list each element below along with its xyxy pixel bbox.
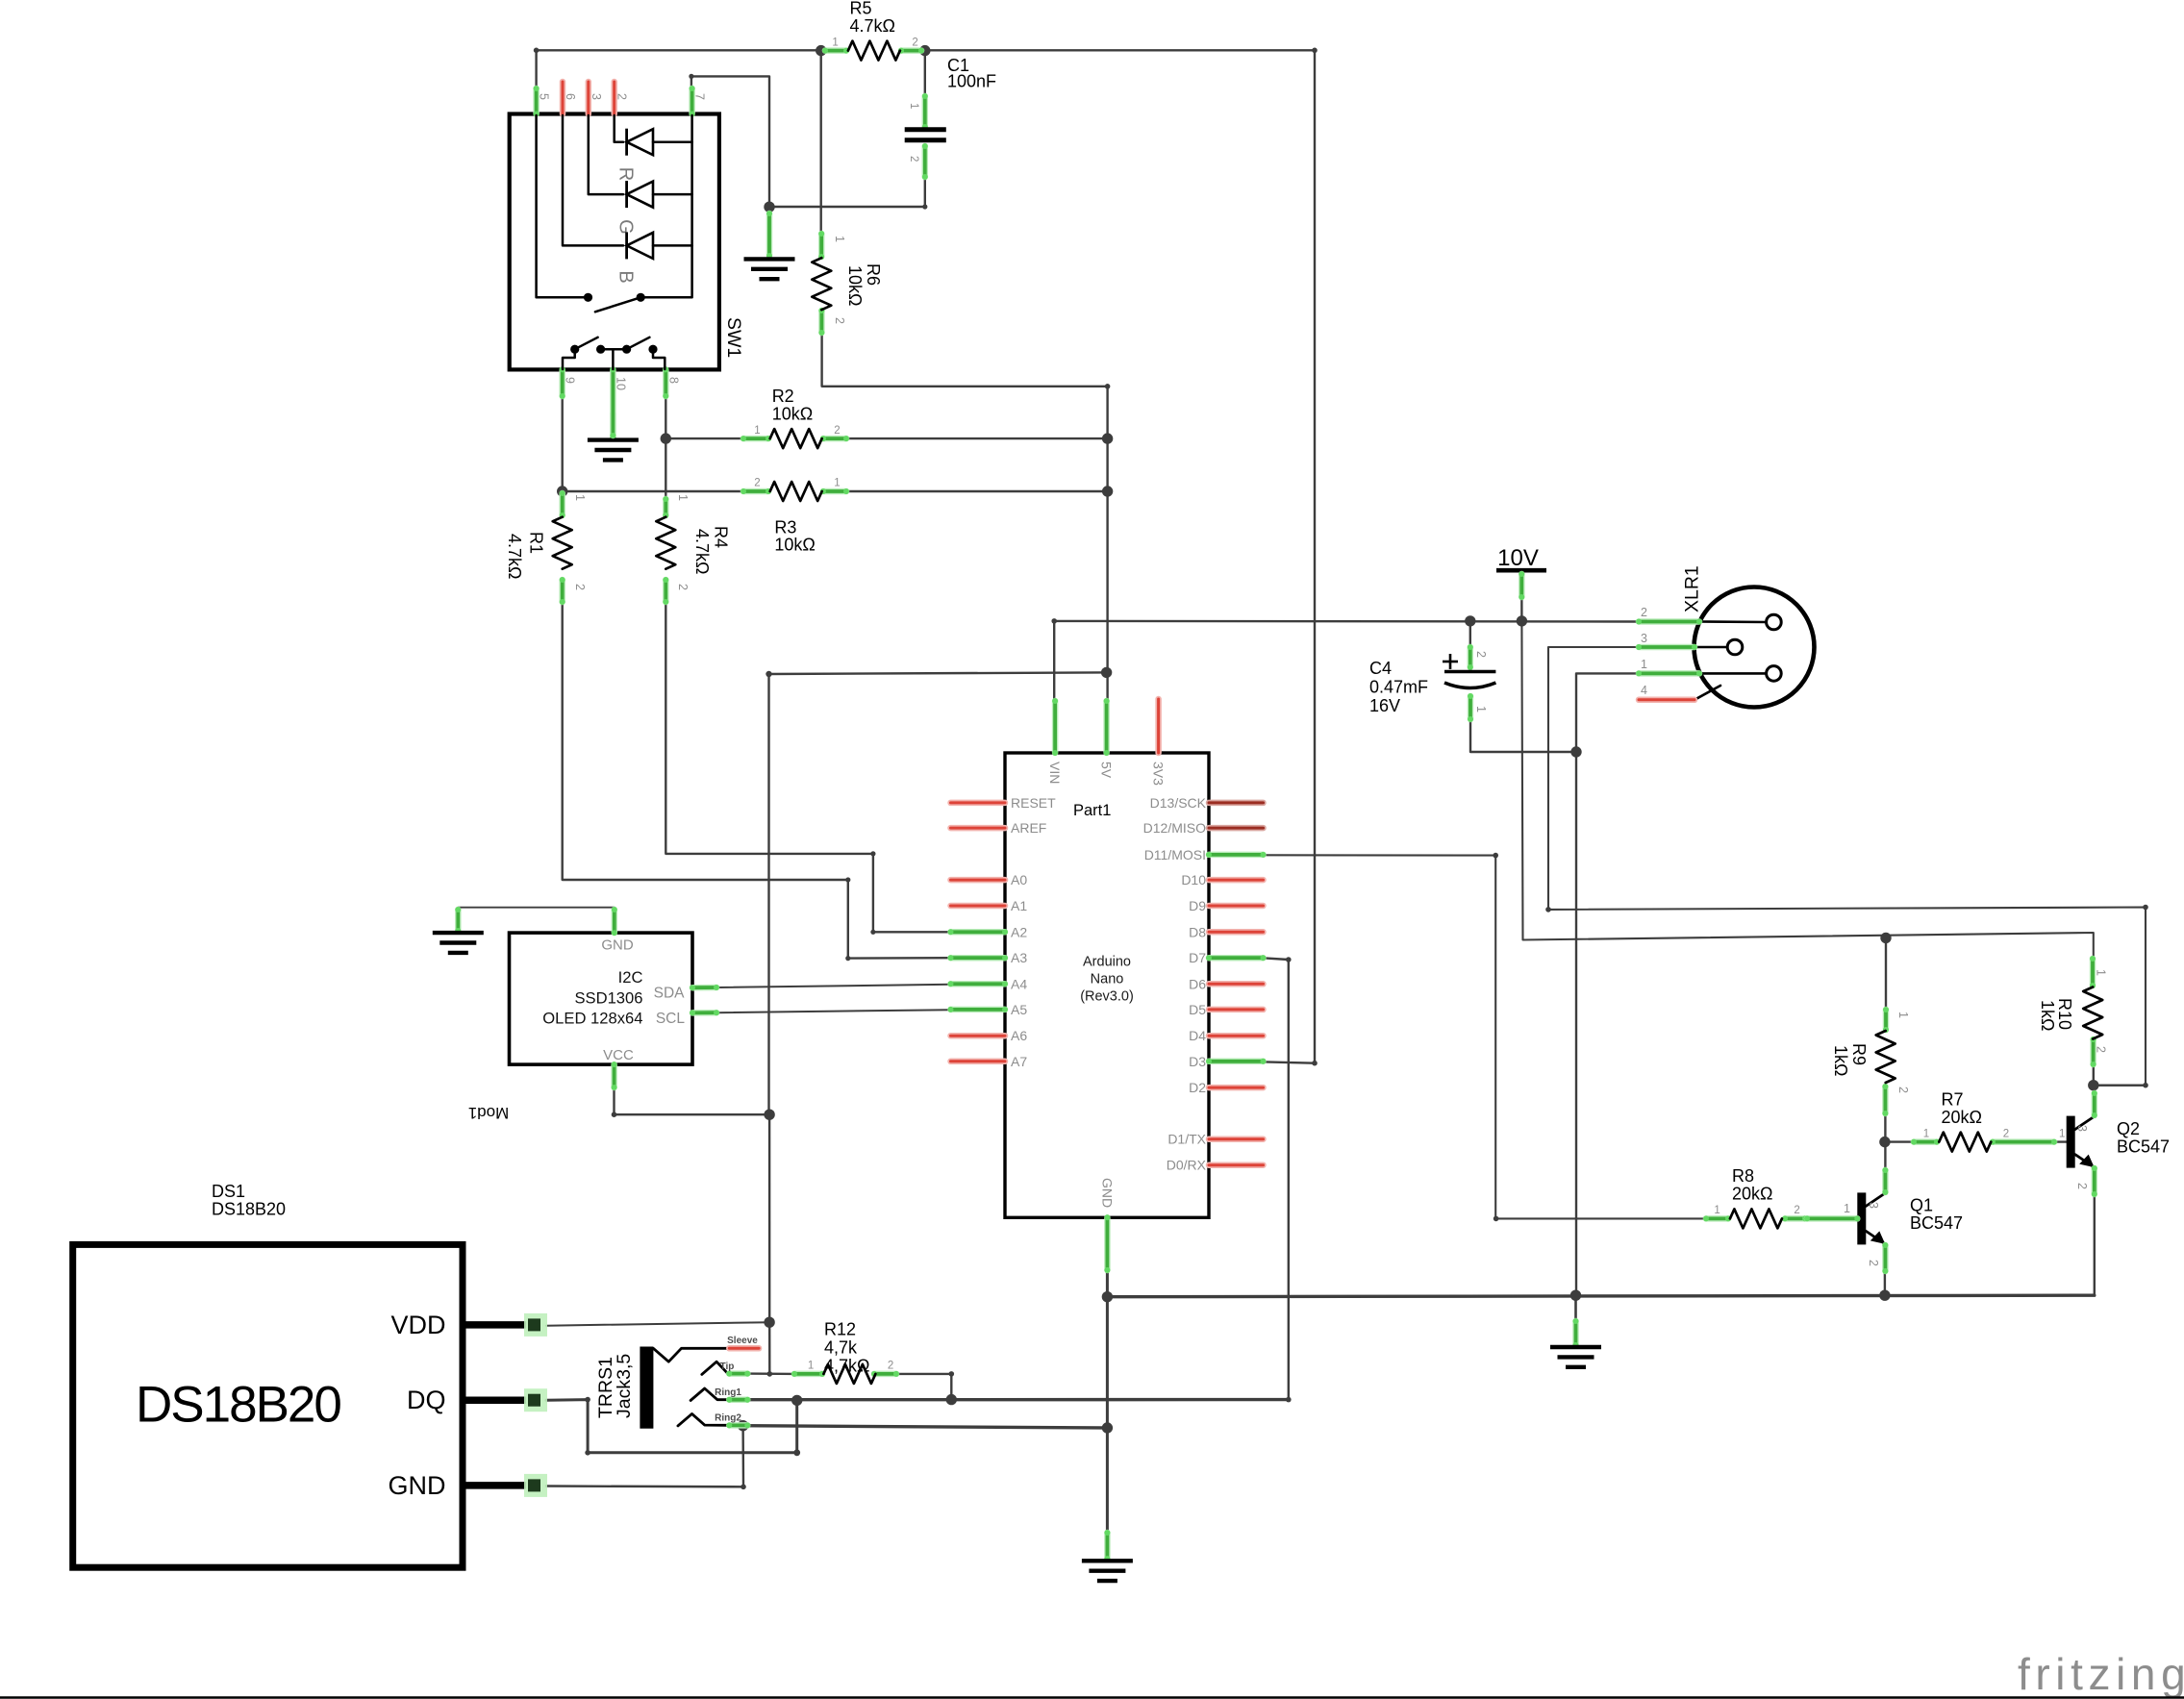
wire C4 pin1 to XLR pin1 vertical bbox=[1470, 719, 1576, 752]
svg-text:DQ: DQ bbox=[407, 1386, 446, 1414]
wire OLED VCC to +5V vertical bbox=[615, 1087, 770, 1114]
LED diode G in SW1 bbox=[625, 181, 628, 208]
svg-text:2: 2 bbox=[833, 317, 846, 324]
svg-text:1: 1 bbox=[2095, 969, 2108, 976]
XLR pin 2 bbox=[1699, 620, 1766, 623]
wire OLED SCL to Arduino A5 bbox=[717, 1010, 951, 1012]
junction C4 minus / XLR1 pin1 node bbox=[1570, 746, 1581, 757]
svg-text:Part1: Part1 bbox=[1073, 802, 1111, 819]
Arduino pin D6 bbox=[1209, 981, 1264, 987]
TRRS jack TRRS1 bbox=[595, 1336, 759, 1429]
svg-text:Tip: Tip bbox=[720, 1362, 735, 1372]
svg-text:Ring2: Ring2 bbox=[715, 1413, 741, 1424]
svg-text:5: 5 bbox=[538, 93, 551, 100]
svg-text:A5: A5 bbox=[1011, 1002, 1027, 1017]
TRRS Ring1 contact bbox=[690, 1388, 728, 1401]
Arduino pin D12/MISO bbox=[1209, 825, 1264, 832]
wire R9 junction to R7 pin1 bbox=[1885, 1140, 1912, 1142]
supply 10V bbox=[1496, 545, 1546, 600]
svg-text:10V: 10V bbox=[1497, 545, 1539, 571]
junction C1 ground node bbox=[764, 202, 774, 212]
junction Ring2 / GND vertical node bbox=[1102, 1422, 1113, 1433]
ground (SW1 pin10) bbox=[610, 411, 615, 440]
wire Ring2 net to Arduino GND vertical bbox=[743, 1426, 1108, 1428]
svg-text:A0: A0 bbox=[1011, 872, 1027, 887]
svg-text:2: 2 bbox=[912, 37, 917, 48]
wire DS18B20 DQ to Ring1 net (detour) bbox=[546, 1400, 797, 1453]
svg-text:DS18B20: DS18B20 bbox=[212, 1199, 286, 1218]
wire C1 pin2 to ground junction bbox=[769, 169, 925, 207]
svg-text:2: 2 bbox=[615, 93, 629, 100]
svg-text:SSD1306: SSD1306 bbox=[574, 989, 642, 1008]
junction 5V pin node bbox=[1101, 667, 1112, 678]
wire 10V supply stub bbox=[1520, 572, 1522, 621]
svg-text:20kΩ: 20kΩ bbox=[1942, 1108, 1982, 1127]
svg-text:1: 1 bbox=[1714, 1205, 1720, 1216]
Arduino pin RESET bbox=[951, 800, 1006, 807]
Arduino pin D9 bbox=[1209, 903, 1264, 910]
svg-text:D13/SCK: D13/SCK bbox=[1150, 795, 1207, 811]
svg-text:2: 2 bbox=[888, 1361, 893, 1372]
corner dot R12 bend bbox=[949, 1371, 955, 1377]
svg-text:GND: GND bbox=[1099, 1178, 1115, 1208]
DS18B20 pin DQ bbox=[463, 1396, 526, 1404]
svg-text:D10: D10 bbox=[1181, 872, 1206, 887]
resistor R2 10k (horizontal) bbox=[741, 387, 849, 448]
svg-text:AREF: AREF bbox=[1011, 820, 1046, 836]
svg-text:R3: R3 bbox=[774, 517, 796, 537]
corner dot A2 bend2 bbox=[870, 930, 875, 935]
OLED module Mod1 SSD1306 bbox=[468, 907, 719, 1122]
DS18B20 sensor DS1 bbox=[73, 1182, 547, 1567]
wire Arduino VIN to 10V net bbox=[1054, 621, 1637, 701]
svg-text:3: 3 bbox=[2075, 1125, 2089, 1132]
wire R4 pin2 to Arduino A2 bbox=[665, 604, 950, 932]
wire R7 pin2 to Q2 base bbox=[2056, 1140, 2069, 1142]
svg-text:2: 2 bbox=[1794, 1205, 1799, 1216]
transistor Q2 BC547 bbox=[2067, 1090, 2170, 1197]
wire ground rail to Q2 emitter bbox=[1107, 1295, 2094, 1297]
junction Ring2 pin node bbox=[738, 1420, 748, 1431]
svg-text:A4: A4 bbox=[1011, 976, 1027, 991]
SW1 pin 6 bbox=[560, 82, 566, 114]
svg-text:R8: R8 bbox=[1732, 1166, 1754, 1186]
wire Q2 collector stub to junction bbox=[2093, 1086, 2096, 1092]
svg-text:BC547: BC547 bbox=[1910, 1213, 1963, 1233]
svg-text:A1: A1 bbox=[1011, 898, 1027, 913]
Arduino pin D7 bbox=[1206, 955, 1267, 961]
svg-text:SCL: SCL bbox=[656, 1011, 686, 1027]
svg-text:R10: R10 bbox=[2055, 998, 2074, 1030]
SW1 pin 2 bbox=[611, 82, 617, 114]
svg-text:BC547: BC547 bbox=[2117, 1137, 2170, 1157]
svg-text:2: 2 bbox=[2075, 1183, 2089, 1189]
svg-text:A7: A7 bbox=[1011, 1054, 1027, 1069]
transistor Q1 BC547 bbox=[1804, 1167, 1963, 1274]
svg-text:2: 2 bbox=[2095, 1046, 2108, 1053]
Arduino pin AREF bbox=[951, 825, 1006, 832]
Arduino pin D2 bbox=[1209, 1085, 1264, 1091]
LED diode R in SW1 bbox=[625, 129, 628, 156]
SW1 pin 3 bbox=[586, 82, 592, 114]
wire R9 pin1 stub bbox=[1885, 938, 1887, 1012]
svg-text:R9: R9 bbox=[1849, 1043, 1869, 1065]
svg-text:C4: C4 bbox=[1369, 659, 1392, 678]
junction R5 pin1 node bbox=[816, 45, 826, 56]
svg-text:2: 2 bbox=[2003, 1128, 2009, 1139]
corner dot D7 bend bbox=[1286, 957, 1292, 962]
ground (Arduino GND, bottom) bbox=[1104, 1530, 1110, 1562]
svg-text:Mod1: Mod1 bbox=[468, 1104, 510, 1122]
svg-text:D3: D3 bbox=[1189, 1054, 1206, 1069]
wire DS18B20 VDD to +5V junction bbox=[546, 1322, 769, 1326]
svg-text:XLR1: XLR1 bbox=[1682, 565, 1703, 612]
TRRS Tip contact bbox=[702, 1362, 728, 1374]
svg-text:7: 7 bbox=[693, 93, 707, 100]
capacitor C1 100nF bbox=[905, 55, 996, 180]
Arduino pin VIN bbox=[1052, 698, 1058, 756]
resistor R8 20k (horizontal) bbox=[1703, 1166, 1808, 1228]
svg-text:1: 1 bbox=[833, 236, 846, 242]
corner dot DS GND bend bbox=[741, 1485, 746, 1490]
svg-text:D9: D9 bbox=[1189, 898, 1206, 913]
svg-text:1: 1 bbox=[832, 37, 838, 48]
Arduino pin A2 bbox=[948, 929, 1009, 935]
svg-text:D0/RX: D0/RX bbox=[1167, 1158, 1207, 1173]
Arduino pin 3V3 bbox=[1155, 699, 1162, 753]
svg-text:D2: D2 bbox=[1189, 1080, 1206, 1095]
wire XLR pin3 to Q2 collector (right edge loop) bbox=[1548, 647, 2146, 1086]
wire SW1 pin5 to R5 pin1 (top rail) bbox=[537, 50, 821, 91]
capacitor C4 0.47mF 16V (polarized) bbox=[1369, 644, 1495, 722]
SW1 pin 10 bbox=[610, 366, 615, 438]
svg-text:5V: 5V bbox=[1099, 762, 1115, 779]
svg-text:D11/MOSI: D11/MOSI bbox=[1144, 847, 1206, 862]
corner dot A3 bend2 bbox=[845, 956, 850, 961]
svg-text:SW1: SW1 bbox=[723, 317, 744, 358]
svg-text:100nF: 100nF bbox=[947, 72, 996, 91]
svg-text:9: 9 bbox=[564, 377, 577, 384]
svg-text:10kΩ: 10kΩ bbox=[772, 405, 813, 424]
junction R9 / R7 / Q1 collector bbox=[1879, 1137, 1890, 1147]
wire 5V pin to +5V net corner bbox=[769, 672, 1107, 1114]
junction R2 / 5V rail bbox=[1102, 433, 1113, 443]
svg-text:1: 1 bbox=[2059, 1128, 2065, 1139]
Arduino pin A1 bbox=[951, 903, 1006, 910]
wire OLED SDA to Arduino A4 bbox=[717, 985, 951, 987]
svg-text:Arduino: Arduino bbox=[1083, 955, 1131, 970]
svg-text:2: 2 bbox=[1641, 606, 1647, 619]
junction 10V wire / R9 pin1 bbox=[1880, 933, 1891, 943]
SW1 pin 8 bbox=[663, 366, 668, 399]
junction Arduino GND node bbox=[1102, 1291, 1113, 1302]
svg-text:3: 3 bbox=[1641, 632, 1647, 645]
svg-text:D7: D7 bbox=[1189, 950, 1206, 965]
wire Arduino GND down to bottom ground bbox=[1106, 1272, 1109, 1531]
svg-text:4.7kΩ: 4.7kΩ bbox=[692, 529, 712, 574]
wire C4 pin2 stub bbox=[1469, 621, 1471, 647]
svg-text:2: 2 bbox=[676, 584, 690, 590]
svg-text:RESET: RESET bbox=[1011, 795, 1056, 811]
svg-text:10: 10 bbox=[614, 377, 627, 390]
wire R1 pin2 to Arduino A3 bbox=[563, 604, 951, 959]
OLED pin SCL bbox=[690, 1010, 719, 1015]
resistor R3 10k (horizontal) bbox=[741, 478, 849, 555]
SW1 pin 7 bbox=[690, 86, 695, 117]
svg-text:4.7kΩ: 4.7kΩ bbox=[505, 534, 524, 579]
SW1 internal wiring bbox=[537, 115, 584, 297]
svg-text:2: 2 bbox=[1867, 1260, 1880, 1266]
DS18B20 pin GND bbox=[463, 1482, 526, 1489]
svg-text:I2C: I2C bbox=[618, 968, 643, 987]
svg-text:1: 1 bbox=[834, 478, 840, 489]
svg-text:R5: R5 bbox=[850, 0, 872, 18]
Arduino pin 5V bbox=[1104, 698, 1110, 756]
svg-text:Nano: Nano bbox=[1091, 972, 1124, 987]
Arduino pin A3 bbox=[948, 955, 1009, 961]
wire R3 pin1 to 5V rail bbox=[846, 490, 1108, 492]
svg-text:Q1: Q1 bbox=[1910, 1196, 1933, 1215]
svg-text:20kΩ: 20kΩ bbox=[1732, 1185, 1772, 1204]
corner dot Tip crossing bbox=[767, 1371, 773, 1377]
Arduino pin D1/TX bbox=[1209, 1136, 1264, 1142]
svg-text:Sleeve: Sleeve bbox=[727, 1336, 758, 1346]
svg-text:A6: A6 bbox=[1011, 1028, 1027, 1043]
wire Q1 emitter to ground rail bbox=[1884, 1273, 1886, 1295]
corner dot XLR3 bend2 bbox=[2143, 905, 2148, 911]
Arduino pin A5 bbox=[948, 1007, 1009, 1012]
svg-text:R7: R7 bbox=[1942, 1090, 1964, 1110]
svg-text:R4: R4 bbox=[712, 526, 731, 548]
resistor R7 20k (horizontal) bbox=[1911, 1090, 2065, 1152]
Arduino pin D3 bbox=[1206, 1059, 1267, 1064]
svg-text:8: 8 bbox=[666, 377, 680, 384]
corner dot XLR3 bend3 bbox=[2143, 1083, 2148, 1088]
svg-text:R1: R1 bbox=[527, 532, 546, 554]
svg-text:DS18B20: DS18B20 bbox=[136, 1377, 340, 1434]
TRRS Ring2 contact bbox=[678, 1413, 728, 1426]
resistor R1 4.7k (vertical) bbox=[505, 490, 587, 605]
SW1 upper switch contacts bbox=[584, 293, 592, 302]
corner dot D3 bend bbox=[1312, 1061, 1318, 1066]
junction SW1 pin8 / R2 node bbox=[661, 433, 671, 443]
svg-text:2: 2 bbox=[573, 584, 587, 590]
svg-text:R6: R6 bbox=[864, 263, 883, 286]
svg-text:1: 1 bbox=[908, 103, 919, 109]
svg-text:D8: D8 bbox=[1189, 924, 1206, 939]
svg-text:2: 2 bbox=[908, 156, 919, 162]
wire +5V vertical to DS18B20 VDD junction bbox=[768, 1114, 771, 1322]
svg-text:4,7kΩ: 4,7kΩ bbox=[824, 1357, 869, 1376]
wire R5 pin2 to Arduino D3 (long top-right vertical) bbox=[925, 50, 1315, 1062]
svg-text:2: 2 bbox=[834, 425, 840, 437]
svg-text:OLED 128x64: OLED 128x64 bbox=[542, 1010, 642, 1028]
corner dot C1 bottom bend bbox=[922, 204, 927, 209]
corner dot top-left rail bbox=[534, 48, 540, 54]
bottom border line bbox=[0, 1696, 2184, 1699]
svg-text:2: 2 bbox=[1474, 651, 1488, 658]
DS18B20 pin VDD bbox=[463, 1321, 526, 1329]
svg-text:GND: GND bbox=[389, 1471, 446, 1500]
wire DS18B20 GND to Ring2 bbox=[546, 1426, 743, 1487]
SW1 pin 9 bbox=[560, 366, 565, 399]
junction R3 / 5V rail bbox=[1102, 486, 1113, 496]
svg-text:1: 1 bbox=[808, 1361, 814, 1372]
svg-text:1: 1 bbox=[1844, 1202, 1850, 1215]
Arduino pin D4 bbox=[1209, 1033, 1264, 1039]
svg-text:A2: A2 bbox=[1011, 924, 1027, 939]
switch module SW1 bbox=[510, 82, 744, 438]
svg-text:1: 1 bbox=[1923, 1128, 1929, 1139]
svg-text:1: 1 bbox=[573, 494, 587, 501]
wire R2 pin1 left lead bbox=[665, 437, 745, 439]
svg-text:D1/TX: D1/TX bbox=[1167, 1132, 1206, 1147]
Arduino pin D0/RX bbox=[1209, 1162, 1264, 1168]
svg-text:2: 2 bbox=[754, 478, 760, 489]
junction Q1 emitter / ground rail bbox=[1879, 1290, 1890, 1301]
svg-text:1: 1 bbox=[1641, 658, 1647, 671]
svg-text:VIN: VIN bbox=[1047, 762, 1063, 784]
wire Ring1 net horizontal bbox=[747, 1398, 1289, 1401]
resistor R9 1k (vertical) bbox=[1831, 1007, 1910, 1116]
ground (OLED GND) bbox=[455, 907, 461, 934]
corner dot DQ bend1 bbox=[585, 1397, 590, 1403]
resistor R6 10k (vertical) bbox=[812, 231, 883, 336]
wire R9 pin2 junction to Q1 collector bbox=[1884, 1142, 1886, 1168]
XLR connector XLR1 bbox=[1636, 565, 1815, 707]
svg-text:R12: R12 bbox=[824, 1320, 856, 1339]
svg-text:Q2: Q2 bbox=[2117, 1119, 2140, 1138]
wire Arduino D7 to Ring1 net bbox=[1261, 958, 1289, 1399]
wire SW1 pin10 to ground bbox=[612, 373, 614, 438]
junction DS18B20 VDD node bbox=[764, 1317, 774, 1328]
resistor R4 4.7k (vertical) bbox=[656, 494, 730, 605]
wire R3 pin2 left lead bbox=[563, 490, 745, 492]
wire SW1 pin9 down to R3 node bbox=[562, 373, 564, 491]
Arduino pin A6 bbox=[951, 1033, 1006, 1039]
junction R12 / Ring1 node bbox=[946, 1394, 957, 1405]
OLED pin GND bbox=[612, 907, 617, 936]
XLR pin 4 bbox=[1694, 686, 1720, 700]
TRRS Sleeve contact bbox=[653, 1348, 728, 1362]
ground (C1 / SW1 pin7) bbox=[766, 211, 772, 259]
Arduino pin A4 bbox=[948, 981, 1009, 987]
svg-text:fritzing: fritzing bbox=[2018, 1649, 2184, 1699]
SW1 lower switch contacts bbox=[570, 345, 579, 354]
svg-text:G: G bbox=[615, 219, 637, 235]
svg-text:VCC: VCC bbox=[603, 1047, 634, 1063]
corner dot DQ bend3 bbox=[793, 1449, 800, 1456]
corner dot D11 bend bbox=[1493, 853, 1498, 859]
Arduino pin A0 bbox=[951, 877, 1006, 884]
wire R2 node down to R4 pin1 bbox=[665, 438, 666, 499]
svg-text:GND: GND bbox=[601, 937, 634, 954]
junction ground rail / XLR vertical bbox=[1570, 1290, 1581, 1301]
svg-text:1: 1 bbox=[754, 425, 760, 437]
wire R5 pin1 down to R6 pin1 bbox=[820, 50, 822, 233]
svg-text:D6: D6 bbox=[1189, 976, 1206, 991]
junction 10V node bbox=[1517, 615, 1527, 626]
corner dot R8 left end bbox=[1494, 1216, 1499, 1222]
corner dot A2 bend1 bbox=[870, 851, 875, 856]
wire XLR pin1 to ground rail bbox=[1576, 673, 1639, 1295]
wire R2 pin2 to 5V rail bbox=[846, 437, 1108, 439]
svg-text:D4: D4 bbox=[1189, 1028, 1206, 1043]
wire 10V to R9 and R10 tops bbox=[1521, 621, 2093, 960]
Arduino pin D11/MOSI bbox=[1206, 852, 1267, 858]
svg-text:0.47mF: 0.47mF bbox=[1369, 678, 1428, 697]
junction DQ / Ring1 node bbox=[791, 1395, 802, 1406]
svg-text:D12/MISO: D12/MISO bbox=[1143, 820, 1206, 836]
svg-text:R2: R2 bbox=[772, 387, 794, 406]
junction R10 / Q2 collector bbox=[2088, 1080, 2098, 1090]
wire +5V vertical to TRRS Tip row bbox=[768, 1322, 770, 1374]
svg-text:1: 1 bbox=[1896, 1012, 1910, 1018]
wire SW1 pin8 down to R2 node bbox=[665, 373, 666, 438]
corner dot +5V net corner bbox=[766, 671, 771, 677]
OLED pin SDA bbox=[690, 985, 719, 990]
junction OLED VCC node bbox=[764, 1110, 774, 1120]
svg-text:B: B bbox=[615, 270, 637, 283]
Arduino Nano Part1 bbox=[948, 698, 1267, 1273]
svg-text:DS1: DS1 bbox=[212, 1182, 245, 1201]
svg-text:SDA: SDA bbox=[654, 986, 686, 1002]
svg-text:4.7kΩ: 4.7kΩ bbox=[850, 16, 895, 36]
Arduino pin D5 bbox=[1209, 1007, 1264, 1013]
wire R12 pin2 down to Ring1 net bbox=[896, 1374, 951, 1400]
junction SW1 pin9 / R3 / R1 node bbox=[557, 486, 567, 496]
svg-text:A3: A3 bbox=[1011, 950, 1027, 965]
svg-text:4,7k: 4,7k bbox=[824, 1338, 858, 1358]
resistor R10 1k (vertical) bbox=[2038, 956, 2108, 1067]
wire SW1 pin7 to C1-ground junction bbox=[691, 76, 769, 207]
corner dot A3 bend1 bbox=[845, 877, 850, 882]
corner dot OLED VCC bend bbox=[612, 1112, 617, 1117]
wire OLED GND pin to ground bbox=[458, 908, 615, 933]
Arduino pin D8 bbox=[1209, 929, 1264, 936]
corner dot 5V rail top bend bbox=[1105, 384, 1111, 389]
wire R6 pin2 to 5V vertical rail bbox=[822, 335, 1108, 701]
Arduino pin D10 bbox=[1209, 877, 1264, 884]
svg-text:1: 1 bbox=[1474, 706, 1488, 712]
svg-text:1kΩ: 1kΩ bbox=[2038, 1000, 2057, 1031]
corner dot SW1 pin7 bend bbox=[689, 74, 693, 79]
svg-text:3: 3 bbox=[590, 93, 603, 100]
corner dot D3 vertical top bbox=[1312, 48, 1318, 54]
svg-text:1kΩ: 1kΩ bbox=[1831, 1045, 1850, 1076]
svg-text:Ring1: Ring1 bbox=[715, 1387, 741, 1398]
corner dot DQ bend2 bbox=[585, 1450, 590, 1456]
XLR pin 3 bbox=[1694, 646, 1727, 649]
svg-text:10kΩ: 10kΩ bbox=[774, 535, 815, 554]
wire ground stub at XLR1 vertical bbox=[1574, 1295, 1577, 1321]
svg-text:(Rev3.0): (Rev3.0) bbox=[1080, 989, 1134, 1005]
Arduino pin GND bbox=[1104, 1214, 1110, 1273]
svg-text:3V3: 3V3 bbox=[1151, 762, 1167, 786]
corner dot D7/Ring1 end bbox=[1286, 1397, 1292, 1403]
SW1 pin 5 bbox=[534, 86, 540, 117]
OLED pin VCC bbox=[612, 1062, 617, 1090]
wire Arduino D11/MOSI to R8 pin1 bbox=[1261, 855, 1705, 1218]
wire TRRS Tip to R12 pin1 bbox=[747, 1372, 794, 1375]
ground (ground rail, right) bbox=[1573, 1318, 1579, 1348]
svg-text:10kΩ: 10kΩ bbox=[845, 265, 865, 306]
resistor R12 4.7k (horizontal, TRRS) bbox=[791, 1320, 899, 1384]
svg-text:R: R bbox=[615, 167, 637, 181]
wire R10 pin2 to Q2 collector junction bbox=[2094, 1062, 2146, 1086]
LED diode B in SW1 bbox=[625, 232, 628, 259]
corner dot VIN bend bbox=[1051, 618, 1057, 624]
